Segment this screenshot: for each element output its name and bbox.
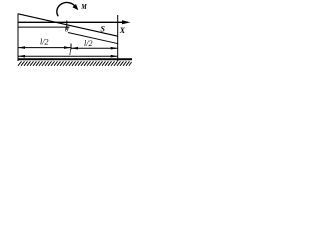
svg-text:X: X [119, 26, 126, 35]
ground hatching [18, 61, 132, 66]
svg-text:M: M [80, 2, 87, 11]
svg-text:l/2: l/2 [84, 39, 92, 48]
moment arc M [57, 2, 76, 16]
svg-text:l/2: l/2 [40, 38, 48, 47]
wire: beam bottom edge (right half, pressed into soil) [68, 33, 118, 44]
dimension l/2 left [18, 47, 71, 49]
wire: right vertical extension line [117, 15, 119, 61]
dimension l/2 right [71, 47, 118, 49]
wire: tilted beam diagonal [18, 14, 118, 36]
dimension l full [18, 55, 118, 57]
node 0: origin tick [66, 21, 68, 30]
node A: x-axis line with arrow [18, 21, 128, 23]
wire: left vertical extension line [17, 14, 19, 62]
wire: beam bottom edge (left half) [18, 26, 70, 28]
dimension center tick [70, 44, 72, 50]
ground line [18, 58, 132, 60]
svg-text:0: 0 [65, 24, 69, 33]
background [0, 0, 141, 80]
svg-text:S: S [101, 25, 106, 34]
